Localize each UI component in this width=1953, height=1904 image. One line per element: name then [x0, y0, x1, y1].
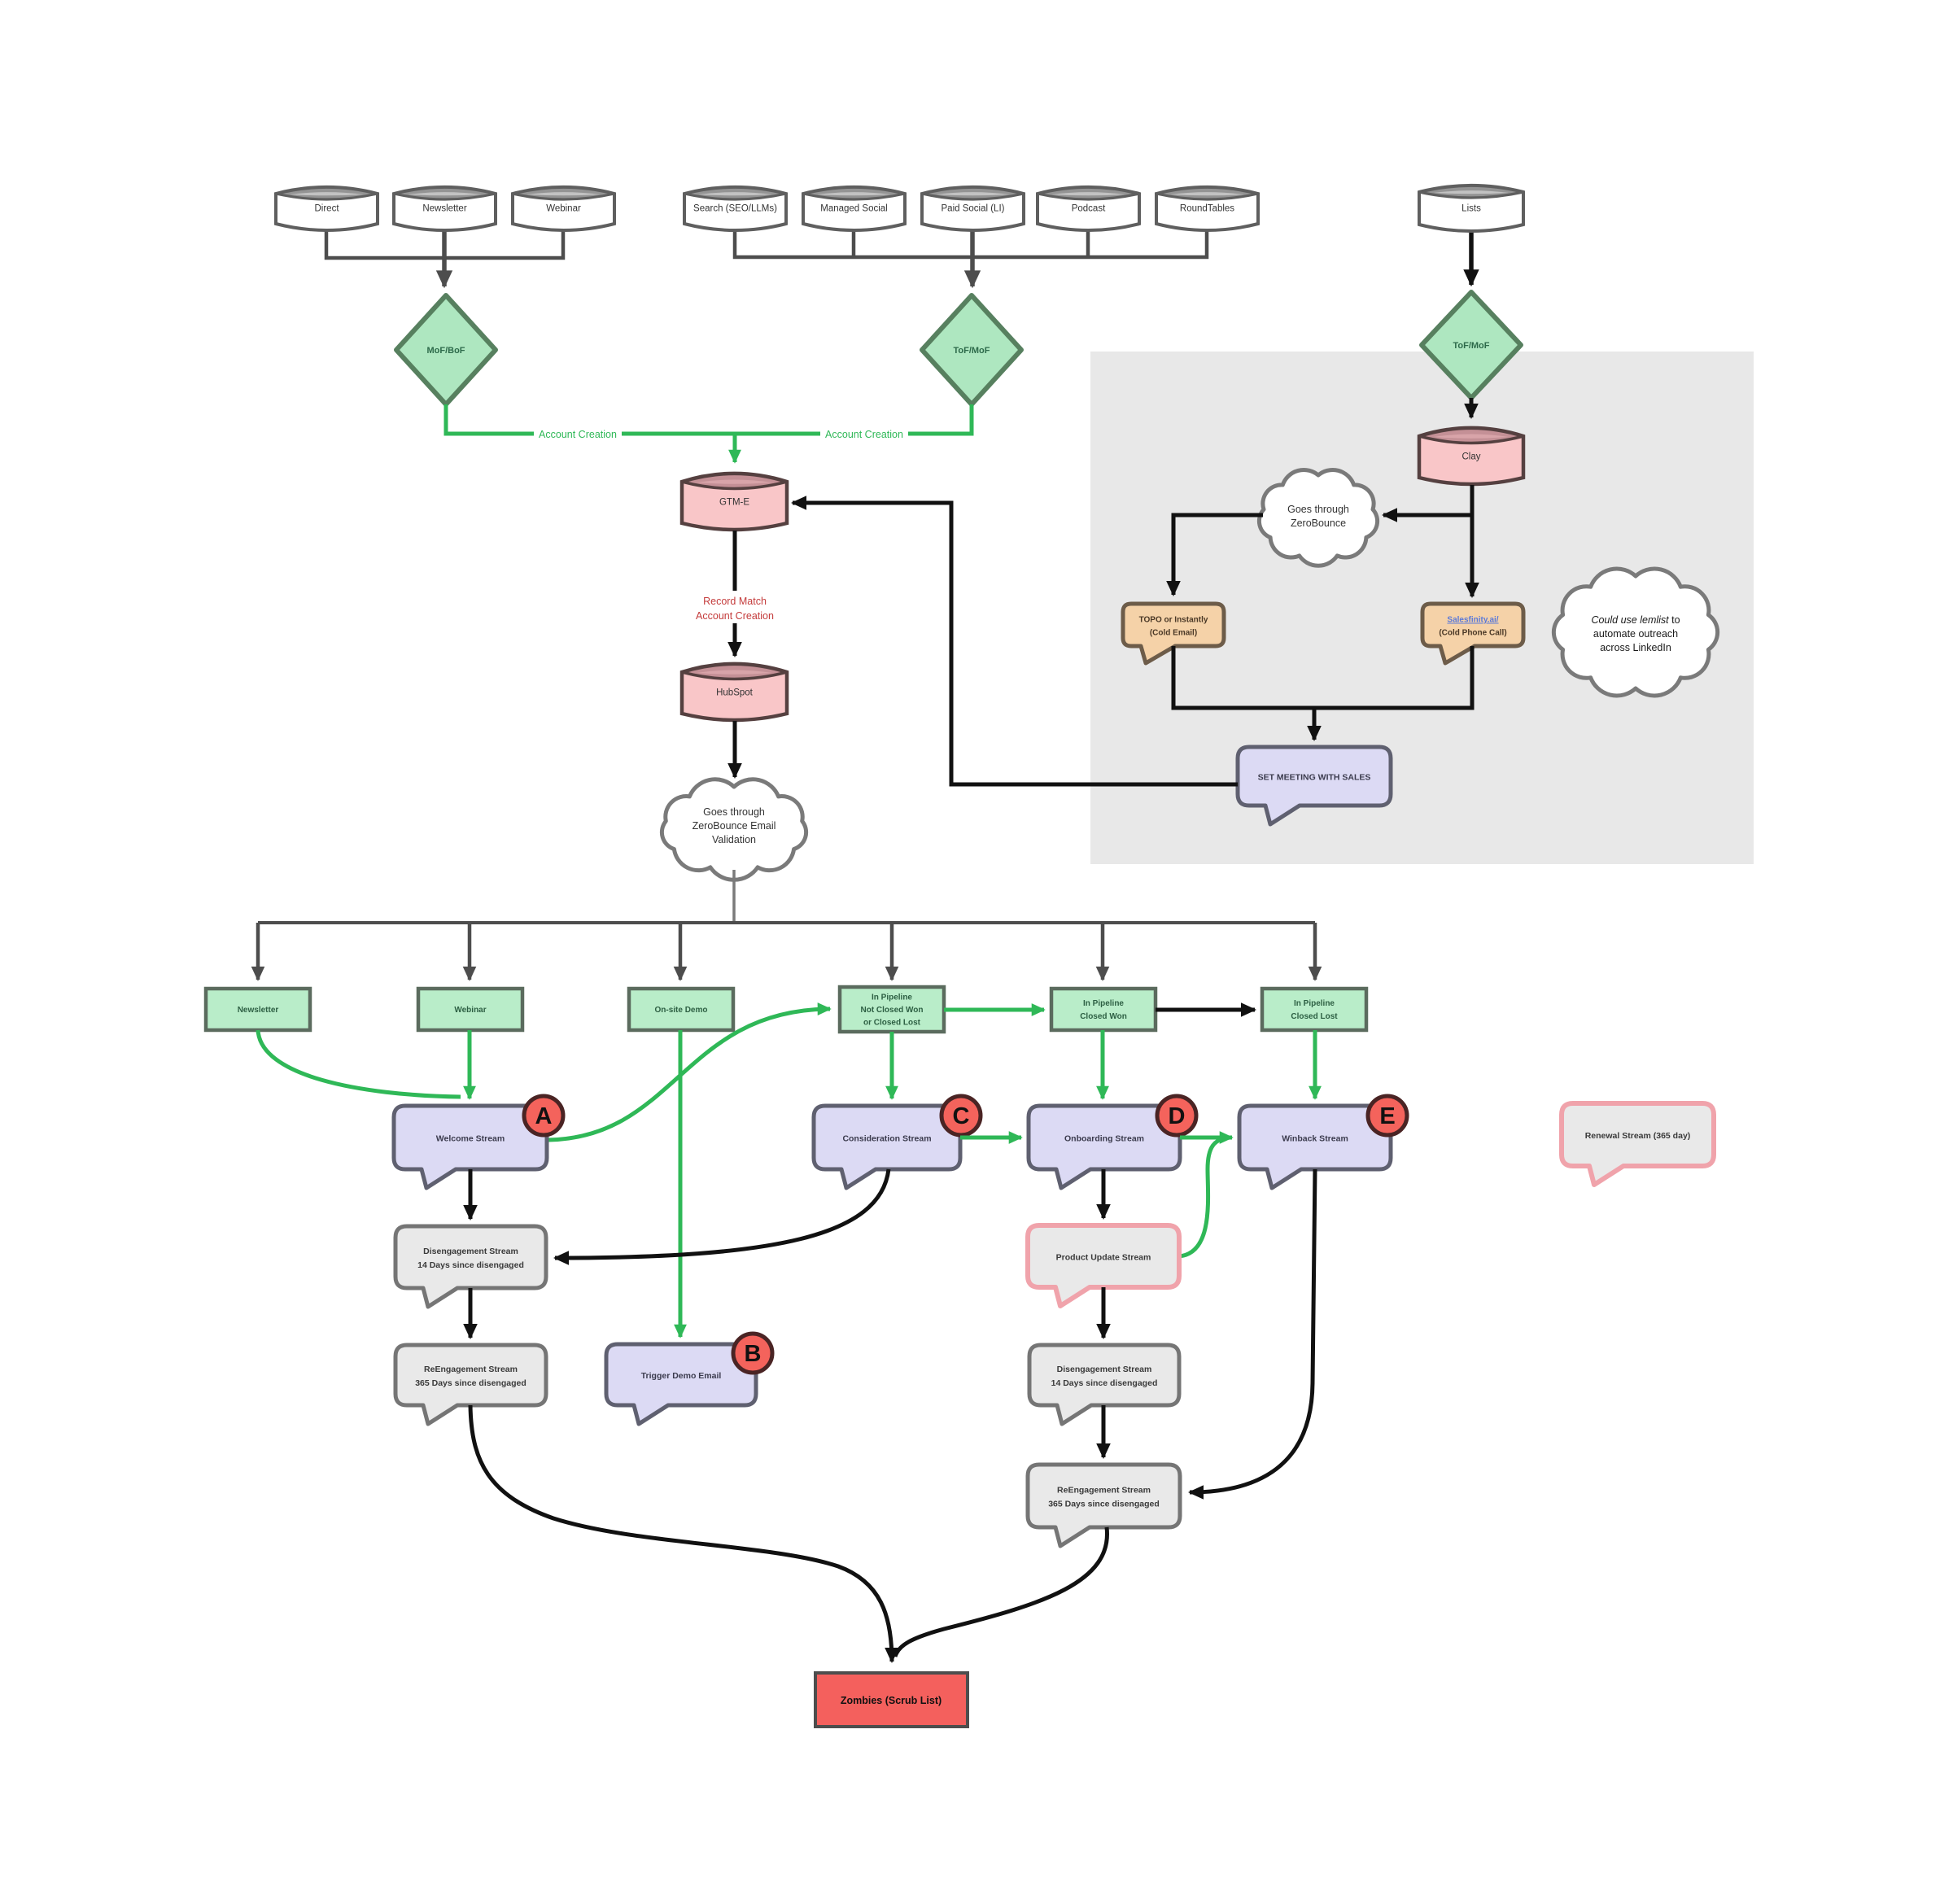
cylinder Managed Social — [803, 187, 905, 230]
cylinder Lists — [1419, 186, 1523, 231]
wire arrow bus drop x=577 — [468, 923, 472, 980]
svg-text:A: A — [535, 1103, 553, 1129]
wire arrow bus drop x=1616 — [1313, 923, 1317, 980]
svg-text:Closed Lost: Closed Lost — [1291, 1012, 1338, 1021]
svg-text:Webinar: Webinar — [454, 1006, 486, 1015]
state box On-site Demo — [629, 989, 733, 1030]
svg-text:365 Days since disengaged: 365 Days since disengaged — [415, 1378, 526, 1388]
bubble Onboarding Stream — [1029, 1106, 1180, 1188]
cylinder Clay — [1419, 428, 1523, 484]
wire: Direct/Newsletter/Webinar to bus — [326, 230, 563, 258]
svg-text:In Pipeline: In Pipeline — [1083, 999, 1124, 1008]
cylinder Direct — [276, 187, 378, 230]
svg-text:Closed Won: Closed Won — [1080, 1012, 1127, 1021]
bubble SET MEETING WITH SALES — [1238, 747, 1391, 824]
svg-text:Webinar: Webinar — [546, 204, 581, 214]
svg-text:(Cold Phone Call): (Cold Phone Call) — [1439, 629, 1506, 638]
badge E — [1368, 1096, 1407, 1135]
svg-text:Salesfinity.ai/: Salesfinity.ai/ — [1447, 616, 1498, 625]
svg-text:Managed Social: Managed Social — [820, 204, 887, 214]
wire arrow NCW to Closed Won — [944, 1008, 1044, 1012]
svg-text:D: D — [1169, 1103, 1186, 1129]
wire arrow Onboarding down to Product Update — [1102, 1169, 1106, 1218]
wire arrow into GTM-E — [733, 434, 737, 462]
cylinder Search (SEO/LLMs) — [684, 187, 786, 230]
svg-text:Onboarding Stream: Onboarding Stream — [1064, 1134, 1144, 1144]
wire arrow HubSpot to ZeroBounce cloud — [733, 721, 737, 777]
badge A — [524, 1096, 563, 1135]
svg-text:Zombies (Scrub List): Zombies (Scrub List) — [841, 1695, 942, 1706]
box Zombies (Scrub List) — [815, 1673, 968, 1727]
svg-text:On-site Demo: On-site Demo — [654, 1006, 707, 1015]
cylinder HubSpot — [682, 664, 787, 720]
state box Webinar — [418, 989, 522, 1030]
badge B — [733, 1334, 772, 1373]
bubble Disengagement Stream 14 Days (left) — [395, 1226, 546, 1307]
bubble Product Update Stream — [1028, 1225, 1179, 1306]
badge C — [942, 1096, 981, 1135]
bubble Renewal Stream (365 day) — [1562, 1103, 1714, 1185]
svg-text:Account Creation: Account Creation — [825, 429, 903, 440]
svg-text:Account Creation: Account Creation — [696, 610, 774, 622]
wire arrow Welcome Stream to In Pipeline NCW (S curve) — [548, 1009, 830, 1140]
svg-text:Paid Social (LI): Paid Social (LI) — [942, 204, 1005, 214]
svg-text:14 Days since disengaged: 14 Days since disengaged — [1051, 1378, 1158, 1388]
wire arrow Welcome down to Disengagement — [469, 1169, 473, 1219]
wire arrow Disengagement to ReEngagement (right) — [1102, 1405, 1106, 1457]
svg-text:MoF/BoF: MoF/BoF — [426, 346, 465, 356]
wire arrow bus drop x=1096 — [890, 923, 894, 980]
wire: group2 cylinders to bus — [735, 230, 1207, 257]
svg-text:365 Days since disengaged: 365 Days since disengaged — [1048, 1500, 1160, 1509]
cylinder GTM-E — [682, 474, 787, 530]
svg-text:Podcast: Podcast — [1072, 204, 1106, 214]
svg-text:Validation: Validation — [712, 834, 756, 845]
svg-text:B: B — [745, 1341, 762, 1367]
svg-text:ToF/MoF: ToF/MoF — [954, 346, 990, 356]
svg-text:ZeroBounce Email: ZeroBounce Email — [693, 820, 776, 832]
wire arrow into ToF/MoF diamond — [970, 230, 975, 286]
svg-text:Could use lemlist to: Could use lemlist to — [1591, 614, 1680, 626]
wire arrow branch into ZeroBounce cloud — [1383, 513, 1472, 517]
wire arrow Consideration curve into Disengagement right edge — [555, 1169, 889, 1258]
cylinder Paid Social (LI) — [922, 187, 1024, 230]
svg-text:ZeroBounce: ZeroBounce — [1291, 517, 1346, 529]
state box In Pipeline Not Closed Won or Closed Lost — [840, 987, 944, 1032]
wire arrow ToF/MoF (Lists) into Clay — [1470, 398, 1474, 417]
wire arrow Closed Won to Closed Lost (black) — [1156, 1008, 1255, 1012]
gray panel (cold outbound section) — [1090, 352, 1754, 864]
svg-text:TOPO or Instantly: TOPO or Instantly — [1139, 616, 1208, 625]
wire arrow bus drop x=317 — [256, 923, 260, 980]
wire Product Update loop up to Winback arrow — [1179, 1138, 1230, 1256]
svg-text:Product Update Stream: Product Update Stream — [1056, 1253, 1151, 1263]
svg-text:RoundTables: RoundTables — [1180, 204, 1234, 214]
svg-text:automate outreach: automate outreach — [1593, 628, 1678, 640]
state box In Pipeline Closed Lost — [1262, 989, 1366, 1030]
svg-text:GTM-E: GTM-E — [719, 498, 749, 508]
svg-text:Disengagement Stream: Disengagement Stream — [1057, 1365, 1152, 1374]
svg-text:across LinkedIn: across LinkedIn — [1600, 642, 1671, 653]
wire cloud to TOPO — [1173, 515, 1263, 595]
wire arrow Consideration to Onboarding — [960, 1136, 1021, 1140]
diamond ToF/MoF — [922, 295, 1021, 404]
wire arrow into MoF/BoF diamond — [442, 230, 447, 286]
bubble Salesfinity (Cold Phone Call) — [1422, 604, 1523, 663]
wire arrow On-site Demo down to Trigger Demo Email — [679, 1030, 683, 1337]
wire arrow bus drop x=836 — [679, 923, 683, 980]
wire arrow Lists into ToF/MoF right diamond — [1469, 232, 1474, 285]
svg-text:Newsletter: Newsletter — [422, 204, 466, 214]
wire: MoF/BoF down to Account Creation line — [446, 404, 735, 434]
wire Newsletter box curve to Welcome arrow — [258, 1030, 461, 1097]
svg-text:Direct: Direct — [314, 204, 339, 214]
wire arrow Disengagement to ReEngagement (left) — [469, 1288, 473, 1338]
state box In Pipeline Closed Won — [1051, 989, 1156, 1030]
wire arrow Webinar down into Welcome Stream — [468, 1030, 472, 1098]
cylinder Webinar — [513, 187, 614, 230]
label Record Match Account Creation — [674, 591, 796, 623]
wire ReEngagement(right) curve to Zombies — [895, 1527, 1108, 1657]
cloud Goes through ZeroBounce Email Validation — [662, 780, 806, 880]
diamond MoF/BoF — [396, 295, 496, 404]
badge D — [1157, 1096, 1196, 1135]
wire cloud to distribution bus — [732, 870, 736, 923]
svg-text:SET MEETING WITH SALES: SET MEETING WITH SALES — [1258, 773, 1371, 783]
cylinder Newsletter — [394, 187, 496, 230]
wire: ToF/MoF down to Account Creation line — [735, 404, 972, 434]
svg-text:ToF/MoF: ToF/MoF — [1453, 341, 1490, 351]
cloud Goes through ZeroBounce — [1259, 470, 1377, 566]
svg-text:Clay: Clay — [1461, 452, 1480, 462]
svg-text:or Closed Lost: or Closed Lost — [863, 1019, 921, 1028]
cylinder RoundTables — [1156, 187, 1258, 230]
wire arrow Closed Lost down into Winback Stream — [1313, 1030, 1317, 1098]
svg-text:(Cold Email): (Cold Email) — [1150, 629, 1197, 638]
svg-text:Consideration Stream: Consideration Stream — [842, 1134, 931, 1144]
svg-text:Winback Stream: Winback Stream — [1282, 1134, 1348, 1144]
bubble TOPO or Instantly (Cold Email) — [1123, 604, 1224, 663]
svg-text:14 Days since disengaged: 14 Days since disengaged — [417, 1260, 524, 1270]
cylinder Podcast — [1038, 187, 1139, 230]
wire Winback down into ReEngagement right edge — [1190, 1169, 1315, 1492]
wire Clay down to Salesfinity — [1470, 485, 1475, 596]
svg-text:Record Match: Record Match — [703, 596, 767, 607]
wire SET MEETING loop back to GTM-E — [793, 503, 1238, 784]
bubble Consideration Stream — [814, 1106, 960, 1188]
svg-text:ReEngagement Stream: ReEngagement Stream — [424, 1365, 518, 1374]
wire arrow Closed Won down into Onboarding Stream — [1101, 1030, 1105, 1098]
wire ReEngagement(left) curve to Zombies — [470, 1405, 892, 1662]
bubble Welcome Stream — [394, 1106, 547, 1188]
svg-text:ReEngagement Stream: ReEngagement Stream — [1057, 1486, 1151, 1496]
wire arrow GTM-E to HubSpot (Record Match) — [733, 531, 737, 656]
svg-text:Disengagement Stream: Disengagement Stream — [423, 1247, 518, 1256]
svg-text:Lists: Lists — [1461, 203, 1481, 213]
svg-text:HubSpot: HubSpot — [716, 688, 754, 698]
wire arrow NCW down into Consideration Stream — [890, 1032, 894, 1098]
wire distribution bus — [258, 921, 1315, 924]
svg-text:Account Creation: Account Creation — [539, 429, 617, 440]
svg-text:Renewal Stream (365 day): Renewal Stream (365 day) — [1585, 1131, 1691, 1141]
wire arrow Product Update down to Disengagement (right) — [1102, 1287, 1106, 1338]
svg-text:Goes through: Goes through — [1287, 504, 1349, 515]
bubble Disengagement Stream 14 Days (right) — [1029, 1345, 1179, 1424]
svg-text:Newsletter: Newsletter — [238, 1006, 279, 1015]
bubble Winback Stream — [1239, 1106, 1391, 1188]
state box Newsletter — [206, 989, 310, 1030]
svg-text:Trigger Demo Email: Trigger Demo Email — [641, 1371, 722, 1381]
svg-text:In Pipeline: In Pipeline — [872, 993, 912, 1002]
cloud Could use lemlist — [1553, 569, 1717, 696]
svg-text:Goes through: Goes through — [703, 806, 765, 818]
svg-text:In Pipeline: In Pipeline — [1294, 999, 1335, 1008]
bubble Trigger Demo Email — [606, 1344, 756, 1424]
wire arrow bus drop x=1355 — [1101, 923, 1105, 980]
svg-text:Not Closed Won: Not Closed Won — [860, 1006, 923, 1015]
wire arrow Onboarding to Winback (merged with Product Update loop) — [1180, 1136, 1232, 1140]
svg-text:C: C — [953, 1103, 970, 1129]
diamond ToF/MoF (Lists) — [1422, 292, 1521, 398]
svg-text:Search (SEO/LLMs): Search (SEO/LLMs) — [693, 204, 777, 214]
bubble ReEngagement Stream 365 Days (left) — [395, 1345, 546, 1424]
wire TOPO and Salesfinity join to SET MEETING — [1173, 646, 1472, 708]
svg-text:E: E — [1379, 1103, 1395, 1129]
bubble ReEngagement Stream 365 Days (right) — [1028, 1465, 1180, 1546]
svg-text:Welcome Stream: Welcome Stream — [436, 1134, 505, 1144]
